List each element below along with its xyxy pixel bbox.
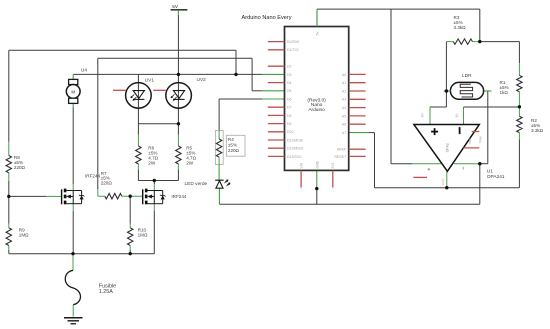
svg-text:A0: A0 [342,73,346,77]
svg-text:M: M [71,89,75,94]
svg-text:D9: D9 [287,122,292,126]
svg-text:1MΩ: 1MΩ [138,233,148,238]
svg-text:5V: 5V [172,4,179,9]
svg-text:IRF244: IRF244 [85,174,101,179]
svg-text:A4: A4 [342,106,346,110]
svg-text:A3: A3 [342,98,346,102]
svg-text:D11/MOSI: D11/MOSI [287,138,303,142]
svg-text:R4: R4 [228,137,234,142]
svg-text:IN-: IN- [455,113,459,117]
svg-text:D2: D2 [287,65,292,69]
svg-text:D7: D7 [287,106,292,110]
svg-text:UV1: UV1 [145,78,155,84]
svg-text:D3: D3 [287,73,292,77]
svg-text:220Ω: 220Ω [14,165,26,170]
svg-text:U4: U4 [81,68,87,74]
svg-text:A6: A6 [342,123,346,127]
svg-text:OPA241: OPA241 [487,174,505,180]
svg-text:D10: D10 [287,130,293,134]
svg-text:OUT: OUT [441,178,445,185]
svg-text:A5: A5 [342,114,346,118]
svg-text:2W: 2W [148,160,156,165]
svg-text:3V3: 3V3 [331,162,335,168]
svg-text:D5: D5 [287,89,292,93]
svg-text:D0/RX0: D0/RX0 [287,40,299,44]
svg-text:TRIM: TRIM [478,136,482,144]
svg-text:1MΩ: 1MΩ [19,233,29,238]
svg-text:LDR: LDR [462,73,472,79]
svg-text:D12/MISO: D12/MISO [287,147,304,151]
svg-text:A2: A2 [342,89,346,93]
svg-text:220Ω: 220Ω [228,148,240,153]
svg-text:Arduino Nano Every: Arduino Nano Every [242,15,292,21]
svg-text:AREF: AREF [337,148,346,152]
svg-text:3.3kΩ: 3.3kΩ [531,128,544,133]
svg-text:LED verde: LED verde [185,181,208,187]
svg-text:OPA2: OPA2 [445,143,449,152]
svg-text:1.25A: 1.25A [99,289,113,295]
svg-text:TRIM: TRIM [468,137,472,145]
svg-text:220Ω: 220Ω [101,181,113,186]
svg-text:D13/SCK: D13/SCK [287,155,302,159]
svg-text:IRF244: IRF244 [171,194,187,199]
svg-text:D8: D8 [287,114,292,118]
svg-text:±5%: ±5% [228,143,237,148]
svg-text:UV2: UV2 [197,77,207,83]
svg-text:IN+: IN+ [420,112,424,117]
svg-text:2W: 2W [186,160,194,165]
svg-text:RESET: RESET [335,155,348,159]
svg-text:A1: A1 [342,81,346,85]
svg-text:U1: U1 [487,169,493,175]
svg-text:D4: D4 [287,81,292,85]
svg-text:3.3kΩ: 3.3kΩ [454,25,467,30]
svg-text:VIN: VIN [300,162,304,168]
svg-text:1kΩ: 1kΩ [500,90,509,95]
svg-text:D6: D6 [287,97,292,101]
svg-text:D1/TX1: D1/TX1 [287,48,299,52]
svg-text:Arduino: Arduino [308,107,325,113]
svg-text:GND: GND [315,161,319,169]
svg-text:A7: A7 [342,131,346,135]
